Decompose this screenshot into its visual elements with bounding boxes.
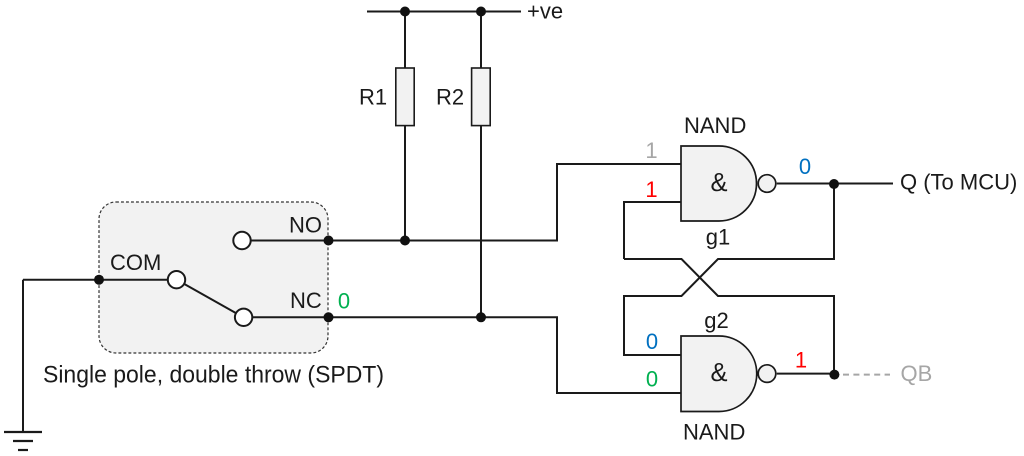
svg-text:Single pole, double throw (SPD: Single pole, double throw (SPDT) — [43, 362, 384, 389]
svg-text:Q (To MCU): Q (To MCU) — [900, 170, 1017, 195]
svg-text:QB: QB — [901, 361, 933, 386]
svg-text:1: 1 — [645, 138, 657, 163]
svg-text:R2: R2 — [436, 85, 464, 110]
svg-text:1: 1 — [645, 177, 657, 202]
svg-text:1: 1 — [795, 348, 807, 373]
svg-text:g1: g1 — [706, 225, 730, 250]
svg-text:0: 0 — [646, 329, 658, 354]
svg-text:COM: COM — [110, 250, 161, 275]
svg-text:+ve: +ve — [527, 0, 563, 24]
svg-text:0: 0 — [799, 154, 811, 179]
svg-text:&: & — [710, 359, 727, 387]
svg-text:&: & — [710, 169, 727, 197]
svg-text:NC: NC — [290, 288, 322, 313]
svg-text:g2: g2 — [704, 308, 728, 333]
svg-text:R1: R1 — [359, 85, 387, 110]
svg-text:0: 0 — [338, 289, 350, 314]
svg-text:NAND: NAND — [683, 420, 745, 445]
svg-text:NO: NO — [289, 213, 322, 238]
svg-text:0: 0 — [646, 367, 658, 392]
svg-text:NAND: NAND — [684, 113, 746, 138]
